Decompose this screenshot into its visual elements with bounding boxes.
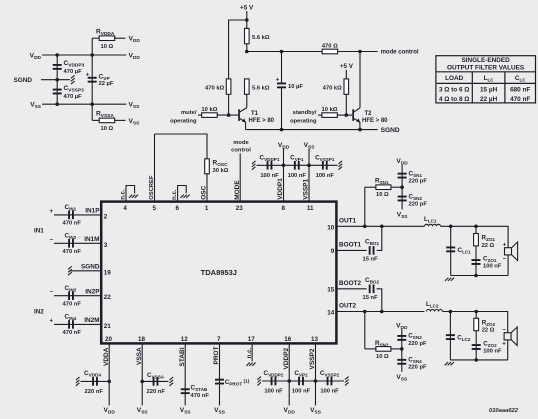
resistor 5.6k lower <box>245 79 250 94</box>
junction rail-T2 <box>358 128 362 132</box>
capacitor CSN4 <box>397 359 406 365</box>
junction rail1-RZO1 <box>474 274 478 278</box>
svg-text:470 Ω: 470 Ω <box>322 43 338 49</box>
label IN1M <box>84 236 99 243</box>
junction OUT1-CBO1 <box>380 225 384 229</box>
label CSN1 <box>409 170 428 184</box>
svg-text:+: + <box>502 341 506 347</box>
svg-text:VSSA: VSSA <box>136 347 143 365</box>
label BOOT2 <box>339 280 361 287</box>
wire decoupling row bottom <box>262 380 344 382</box>
svg-text:7: 7 <box>217 336 221 343</box>
svg-text:14: 14 <box>327 309 335 316</box>
wire ROSC to OSC pin <box>206 174 208 202</box>
svg-text:n.c.: n.c. <box>247 348 253 359</box>
capacitor CIN4 <box>68 320 74 329</box>
label CIN4 <box>63 314 82 337</box>
svg-text:standby/: standby/ <box>293 110 317 116</box>
svg-text:20: 20 <box>105 336 113 343</box>
capacitor CZO1 <box>472 259 481 265</box>
wire OSC loop <box>155 134 208 159</box>
svg-text:T1: T1 <box>251 111 259 117</box>
svg-text:BOOT1: BOOT1 <box>339 242 361 249</box>
svg-text:010aaa622: 010aaa622 <box>489 408 519 414</box>
label 10uF value <box>288 84 303 90</box>
svg-text:10 kΩ: 10 kΩ <box>322 107 338 113</box>
pin number 11 <box>307 205 314 212</box>
svg-text:16: 16 <box>284 336 292 343</box>
svg-text:23: 23 <box>236 205 244 212</box>
svg-text:9: 9 <box>331 248 335 255</box>
wire OUT1 to speaker <box>441 226 509 248</box>
net VSS label pin13 <box>310 407 322 416</box>
label CZO2 <box>483 340 502 354</box>
ground pin 6 <box>181 195 190 198</box>
net VDD label pin20 <box>104 407 116 416</box>
label CSN3 <box>408 333 427 347</box>
label IN2 minus <box>49 289 53 295</box>
label MODE <box>234 180 241 200</box>
wire mute input <box>198 114 202 116</box>
svg-text:IN1M: IN1M <box>84 236 99 243</box>
svg-text:470 nF: 470 nF <box>63 221 82 227</box>
capacitor CBO1 <box>369 246 375 255</box>
wire RSN1 drop <box>364 187 366 226</box>
junction pin18-CVSSA <box>140 380 144 384</box>
svg-text:13: 13 <box>311 336 319 343</box>
svg-text:10 Ω: 10 Ω <box>376 354 389 360</box>
svg-text:11: 11 <box>307 205 314 212</box>
pin 17 nc wire <box>251 343 253 361</box>
net VSS label snub1 <box>397 212 409 221</box>
capacitor CSN2 <box>398 196 407 202</box>
svg-text:BOOT2: BOOT2 <box>339 280 361 287</box>
svg-text:1: 1 <box>205 205 209 212</box>
resistor RSN2 <box>365 347 402 352</box>
svg-text:22 µF: 22 µF <box>99 81 114 87</box>
svg-text:22 Ω: 22 Ω <box>482 243 495 249</box>
net VDD label pin16 <box>284 407 296 416</box>
label LLC2 <box>426 301 439 309</box>
resistor 470R mode <box>322 49 338 54</box>
label CVDDP1 <box>260 155 280 179</box>
svg-text:OUTPUT FILTER VALUES: OUTPUT FILTER VALUES <box>447 64 525 71</box>
label CVDDP2 <box>264 370 284 395</box>
speaker LS2 <box>504 327 517 346</box>
pin number 18 <box>138 336 146 343</box>
svg-text:+: + <box>276 78 280 84</box>
junction VDD-CVP <box>90 53 94 57</box>
wire snub2 column <box>401 329 403 372</box>
label RSN2 <box>375 340 389 360</box>
pin 11 VSSP1 wire <box>308 148 310 201</box>
resistor RSN1 <box>365 185 402 190</box>
label CVP2 <box>292 370 311 395</box>
pin 3 IN1M wire <box>54 242 101 244</box>
net VSS label pin12 <box>180 407 192 416</box>
svg-text:18: 18 <box>138 336 146 343</box>
label CSTAB <box>191 384 210 398</box>
svg-text:470 nF: 470 nF <box>63 301 82 307</box>
wire SGND row <box>41 79 70 81</box>
net mode control right <box>381 50 419 56</box>
wire control node row <box>247 51 378 53</box>
pin 5 OSCREF wire <box>154 134 156 202</box>
net VSS label pin7 <box>214 407 226 416</box>
label IN1 <box>34 228 44 235</box>
capacitor CLC2 <box>446 334 455 340</box>
svg-text:TDA8953J: TDA8953J <box>201 268 237 277</box>
wire OUT2 to speaker <box>443 312 508 333</box>
label RVSSA value <box>96 111 114 133</box>
wire CLC2 drop <box>449 312 451 360</box>
svg-text:−: − <box>503 256 507 262</box>
pin number 6 <box>175 205 179 212</box>
svg-text:220 pF: 220 pF <box>409 179 428 185</box>
capacitor CSTAB <box>181 388 190 394</box>
label CVSSA <box>147 372 166 395</box>
ground CVSSA <box>170 377 174 386</box>
capacitor CVSSP2 <box>327 377 333 386</box>
net VDD label snub2 <box>396 322 408 331</box>
svg-text:100 nF: 100 nF <box>264 389 283 395</box>
capacitor CVDDP1 <box>267 161 273 170</box>
svg-text:15 nF: 15 nF <box>363 257 379 263</box>
label CSN2 <box>409 193 428 207</box>
resistor RZO1 <box>474 234 479 246</box>
pin 22 IN2P wire <box>54 295 101 297</box>
capacitor CVDDP2 <box>271 377 277 386</box>
label IN2P <box>85 288 100 295</box>
junction OUT1-RZO1 <box>474 225 478 229</box>
resistor 470k T2 <box>344 79 349 94</box>
label CLC1 <box>458 247 472 255</box>
wire 470k to base <box>228 94 230 115</box>
label IN2 plus <box>49 318 53 324</box>
svg-text:SGND: SGND <box>14 77 33 84</box>
wire RSN2 drop <box>364 312 366 349</box>
ground pin 4 <box>129 195 138 198</box>
label TDA8953J <box>201 268 237 277</box>
pin number 16 <box>284 336 292 343</box>
wire RZO1 drop <box>475 226 477 275</box>
pin number 19 <box>104 269 112 276</box>
svg-text:6: 6 <box>175 205 179 212</box>
capacitor CZO2 <box>472 344 481 350</box>
svg-text:100 nF: 100 nF <box>320 389 339 395</box>
svg-text:4 Ω to 8 Ω: 4 Ω to 8 Ω <box>439 96 470 103</box>
svg-text:100 nF: 100 nF <box>483 349 502 355</box>
label PROT <box>213 346 220 364</box>
label OSCREF <box>149 175 155 200</box>
transistor T2 <box>352 108 360 130</box>
junction pin20-CVDDA <box>107 380 111 384</box>
pin number 14 <box>327 309 335 316</box>
junction rail2-RZO2 <box>474 358 478 362</box>
label T2 <box>362 111 388 124</box>
label 470k T2 <box>323 85 343 91</box>
junction base T1 <box>227 113 231 117</box>
svg-text:+: + <box>49 209 53 215</box>
wire +5V drop <box>246 11 248 28</box>
junction SGND-bus <box>55 78 59 82</box>
svg-text:operating: operating <box>290 118 317 124</box>
label CVSSP2 <box>320 370 340 395</box>
svg-text:5: 5 <box>152 205 156 212</box>
label 10k T2 <box>322 107 338 113</box>
svg-text:100 nF: 100 nF <box>316 173 335 179</box>
capacitor CVDDP3 <box>53 64 62 70</box>
junction snub1 <box>400 185 404 189</box>
label LLC1 <box>424 216 437 224</box>
svg-text:−: − <box>502 328 506 334</box>
svg-text:OSC: OSC <box>201 185 208 199</box>
svg-text:470 nF: 470 nF <box>191 393 210 399</box>
svg-text:SINGLE-ENDED: SINGLE-ENDED <box>461 57 510 64</box>
capacitor CVP2 <box>298 377 304 386</box>
label ROSC <box>213 160 229 174</box>
net VDD label RVDDA <box>129 36 141 45</box>
svg-text:15 µH: 15 µH <box>480 87 498 94</box>
label 5.6k upper <box>252 35 270 41</box>
wire T2 collector <box>359 52 361 108</box>
ground right row bottom <box>345 377 349 386</box>
capacitor CSN3 <box>397 335 406 341</box>
pin 21 IN2M wire <box>54 323 101 325</box>
wire CVDDA stub <box>81 380 110 382</box>
pin 12 STABI wire <box>184 343 186 405</box>
pin number 9 <box>331 248 335 255</box>
op-amp U1 TDA8953J body <box>101 202 336 344</box>
label CZO1 <box>483 255 502 269</box>
svg-text:10 Ω: 10 Ω <box>101 44 114 50</box>
svg-text:+5 V: +5 V <box>240 5 254 12</box>
pin 10 OUT1 wire <box>336 225 424 227</box>
resistor RZO2 <box>474 318 479 330</box>
pin 6 n.c. <box>178 186 187 202</box>
svg-text:680 nF: 680 nF <box>510 87 530 94</box>
label OUT2 <box>339 303 356 310</box>
svg-text:OUT1: OUT1 <box>339 217 356 224</box>
svg-text:VDDP1: VDDP1 <box>277 178 284 200</box>
svg-text:30 kΩ: 30 kΩ <box>213 168 229 174</box>
svg-text:10 Ω: 10 Ω <box>376 192 389 198</box>
label VSSP2 <box>309 348 316 369</box>
pin number 21 <box>104 323 112 330</box>
label IN1 minus <box>49 237 53 243</box>
junction rail-10uF <box>280 128 284 132</box>
net SGND label <box>14 77 33 84</box>
svg-text:OUT2: OUT2 <box>339 303 356 310</box>
svg-text:470 kΩ: 470 kΩ <box>205 85 225 91</box>
svg-text:+: + <box>503 243 507 249</box>
capacitor CBO2 <box>369 285 375 294</box>
pin 9 BOOT1 wire <box>336 249 366 251</box>
svg-text:100 nF: 100 nF <box>483 264 502 270</box>
label CVSSP3 value <box>64 85 85 100</box>
svg-text:100 nF: 100 nF <box>260 173 279 179</box>
svg-text:470 µF: 470 µF <box>64 94 83 100</box>
resistor RVSSA <box>92 118 125 123</box>
pin number 8 <box>281 205 285 212</box>
label mute/operating <box>170 110 197 125</box>
wire speaker2 bottom <box>507 340 509 360</box>
svg-text:SGND: SGND <box>381 127 400 134</box>
label 470k T1 <box>205 85 225 91</box>
resistor 10k T2 <box>322 113 338 118</box>
label IN2 <box>34 309 44 316</box>
label CLC2 <box>457 335 471 343</box>
svg-text:470 nF: 470 nF <box>510 96 530 103</box>
svg-text:3: 3 <box>104 242 108 249</box>
svg-text:10 Ω: 10 Ω <box>101 126 114 132</box>
label 5.6k lower <box>252 85 270 91</box>
svg-text:mode control: mode control <box>381 50 419 56</box>
svg-text:LOAD: LOAD <box>445 75 463 82</box>
svg-text:100 nF: 100 nF <box>288 173 307 179</box>
inductor LLC1 <box>425 224 441 226</box>
svg-text:220 pF: 220 pF <box>408 365 427 371</box>
svg-text:control: control <box>231 147 251 153</box>
wire VSS row <box>42 103 126 105</box>
pin number 15 <box>327 287 335 294</box>
label T1 <box>249 111 275 124</box>
pin number 2 <box>104 213 108 220</box>
svg-text:HFE > 80: HFE > 80 <box>249 118 275 124</box>
label speaker2 plus <box>502 341 506 347</box>
label 10k T1 <box>201 107 217 113</box>
net VDD label right <box>129 52 141 61</box>
label CVP plus <box>86 73 90 79</box>
pin number 13 <box>311 336 319 343</box>
svg-text:470 nF: 470 nF <box>63 249 82 255</box>
capacitor CVP <box>88 77 97 83</box>
watermark 010aaa622 <box>489 408 519 414</box>
wire base wire T2 <box>337 114 352 116</box>
ground pin 19 <box>68 266 72 275</box>
svg-text:470 nF: 470 nF <box>63 330 82 336</box>
junction row-pin11 <box>307 164 311 168</box>
svg-text:220 nF: 220 nF <box>147 389 166 395</box>
label IN1P <box>85 208 100 215</box>
label IN2M <box>84 317 99 324</box>
ground rail 2 <box>445 362 454 365</box>
wire CVP bus vertical <box>91 38 93 120</box>
capacitor CVP1 <box>294 161 300 170</box>
svg-text:−: − <box>49 289 53 295</box>
pin 4 n.c. <box>126 186 135 202</box>
capacitor CIN1 <box>68 211 74 220</box>
label n.c. pin17 <box>247 348 253 359</box>
label speaker2 minus <box>502 328 506 334</box>
net +5V label T1 <box>240 5 254 12</box>
wire snub1 column <box>401 165 403 210</box>
svg-text:VDDP2: VDDP2 <box>283 347 290 369</box>
net SGND label rail <box>381 127 400 134</box>
ground left row top <box>252 161 256 170</box>
svg-text:15 nF: 15 nF <box>363 295 379 301</box>
label SGND pin19 <box>81 264 100 271</box>
net VSS label snub2 <box>396 374 408 383</box>
capacitor 10uF <box>277 52 286 130</box>
svg-text:10 µF: 10 µF <box>288 84 303 90</box>
resistor RVDDA <box>92 36 125 41</box>
junction OUT1-CLC1 <box>449 225 453 229</box>
svg-text:5.6 kΩ: 5.6 kΩ <box>252 85 270 91</box>
junction OUT2-CBO2 <box>380 310 384 314</box>
label n.c. pin 4 <box>121 189 127 200</box>
label CIN2 <box>63 232 82 255</box>
svg-text:22 Ω: 22 Ω <box>482 328 495 334</box>
wire RZO2 drop <box>475 312 477 360</box>
wire CBO2 to OUT2 <box>377 289 382 312</box>
wire base wire T1 <box>217 114 238 116</box>
capacitor CVDDA <box>92 377 98 386</box>
wire VDD row <box>42 54 126 56</box>
label CIN3 <box>63 285 82 308</box>
svg-text:mode: mode <box>233 140 249 146</box>
resistor 470k T1 <box>226 79 231 94</box>
capacitor CLC1 <box>446 247 455 253</box>
svg-text:SGND: SGND <box>81 264 100 271</box>
wire decoupling row top <box>257 164 338 166</box>
label CSN4 <box>408 357 427 371</box>
svg-text:220 pF: 220 pF <box>408 341 427 347</box>
pin 20 VDDA wire <box>108 343 110 405</box>
svg-text:12: 12 <box>181 336 189 343</box>
capacitor CVSSP1 <box>322 161 328 170</box>
wire T1 collector <box>246 94 248 107</box>
wire CVSSA stub <box>142 380 168 382</box>
label CBO2 <box>363 277 380 301</box>
junction base T2 <box>345 113 349 117</box>
wire standby input <box>318 114 322 116</box>
resistor ROSC <box>205 159 210 174</box>
pin number 12 <box>181 336 189 343</box>
net VDD label left <box>30 52 42 61</box>
ground SGND <box>71 75 75 84</box>
label CIN1 <box>63 204 82 227</box>
junction node-T2 <box>358 50 362 54</box>
svg-text:STABI: STABI <box>179 347 186 366</box>
pin 19 SGND wire <box>70 270 101 272</box>
label CPROT <box>225 379 250 387</box>
net VSS label right <box>129 102 141 111</box>
svg-text:IN1P: IN1P <box>85 208 100 215</box>
svg-text:IN1: IN1 <box>34 228 44 235</box>
pin 23 MODE wire <box>239 153 241 201</box>
label IN1 plus <box>49 209 53 215</box>
junction OUT2-CLC2 <box>449 310 453 314</box>
svg-text:4: 4 <box>123 205 127 212</box>
svg-text:PROT: PROT <box>213 346 220 364</box>
pin number 4 <box>123 205 127 212</box>
svg-text:22 µH: 22 µH <box>480 96 498 103</box>
capacitor CPROT <box>215 379 224 385</box>
svg-text:VSSP2: VSSP2 <box>309 348 316 369</box>
svg-text:10: 10 <box>327 224 335 231</box>
svg-text:15: 15 <box>327 287 335 294</box>
junction VDD-bus <box>55 53 59 57</box>
svg-text:IN2: IN2 <box>34 309 44 316</box>
pin 15 BOOT2 wire <box>336 288 366 290</box>
junction VSS-bus <box>55 102 59 106</box>
svg-text:VSSP1: VSSP1 <box>303 178 310 199</box>
resistor 10k T1 <box>202 113 218 118</box>
svg-text:17: 17 <box>248 336 256 343</box>
svg-text:n.c.: n.c. <box>172 189 178 200</box>
net VSS label pin11 <box>304 142 316 151</box>
